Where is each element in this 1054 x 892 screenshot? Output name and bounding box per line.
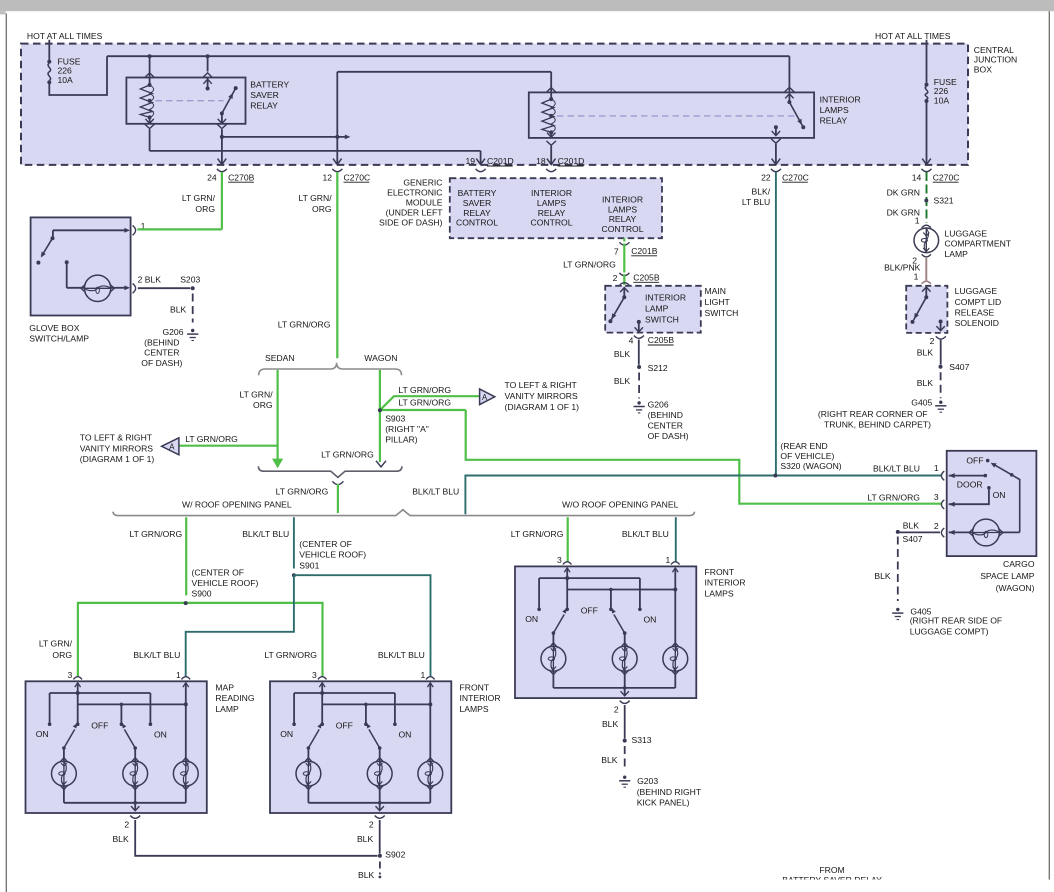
svg-text:ON: ON bbox=[280, 729, 293, 739]
svg-text:BLK/LT BLU: BLK/LT BLU bbox=[412, 487, 459, 497]
svg-text:W/ ROOF OPENING PANEL: W/ ROOF OPENING PANEL bbox=[182, 500, 292, 510]
svg-text:INTERIOR: INTERIOR bbox=[645, 293, 686, 303]
svg-text:RELAY: RELAY bbox=[538, 208, 566, 218]
svg-text:(RIGHT REAR CORNER OF: (RIGHT REAR CORNER OF bbox=[818, 409, 928, 419]
svg-text:3: 3 bbox=[934, 492, 939, 502]
svg-text:LUGGAGE: LUGGAGE bbox=[945, 228, 988, 238]
svg-text:VEHICLE ROOF): VEHICLE ROOF) bbox=[192, 578, 259, 588]
svg-text:S903: S903 bbox=[385, 413, 405, 423]
svg-text:LT GRN/ORG: LT GRN/ORG bbox=[398, 397, 451, 407]
svg-text:INTERIOR: INTERIOR bbox=[705, 578, 746, 588]
svg-text:VANITY MIRRORS: VANITY MIRRORS bbox=[80, 443, 153, 453]
svg-text:BLK: BLK bbox=[614, 349, 631, 359]
svg-text:SEDAN: SEDAN bbox=[265, 353, 295, 363]
svg-text:OFF: OFF bbox=[581, 606, 598, 616]
svg-text:BLK/LT BLU: BLK/LT BLU bbox=[242, 529, 289, 539]
svg-text:HOT AT ALL TIMES: HOT AT ALL TIMES bbox=[27, 31, 103, 41]
svg-text:LT GRN/ORG: LT GRN/ORG bbox=[321, 449, 374, 459]
svg-text:A: A bbox=[169, 443, 175, 452]
svg-text:18: 18 bbox=[536, 156, 546, 166]
svg-text:OF DASH): OF DASH) bbox=[648, 431, 689, 441]
svg-text:BLK: BLK bbox=[358, 870, 375, 880]
svg-text:INTERIOR: INTERIOR bbox=[820, 95, 861, 105]
svg-text:LIGHT: LIGHT bbox=[705, 297, 731, 307]
svg-text:ON: ON bbox=[36, 729, 49, 739]
svg-text:2: 2 bbox=[930, 336, 935, 346]
svg-text:BLK/LT BLU: BLK/LT BLU bbox=[378, 650, 425, 660]
svg-text:SPACE LAMP: SPACE LAMP bbox=[980, 571, 1035, 581]
svg-text:MAP: MAP bbox=[215, 682, 234, 692]
svg-text:LT GRN/: LT GRN/ bbox=[39, 639, 73, 649]
svg-text:(DIAGRAM 1 OF 1): (DIAGRAM 1 OF 1) bbox=[505, 402, 580, 412]
svg-text:OFF: OFF bbox=[336, 721, 353, 731]
svg-text:C201D: C201D bbox=[558, 156, 585, 166]
svg-text:3: 3 bbox=[557, 555, 562, 565]
svg-text:2: 2 bbox=[934, 521, 939, 531]
svg-text:1: 1 bbox=[934, 463, 939, 473]
svg-text:C205B: C205B bbox=[633, 273, 660, 283]
svg-text:3: 3 bbox=[68, 670, 73, 680]
svg-text:S407: S407 bbox=[949, 362, 969, 372]
svg-text:C205B: C205B bbox=[648, 335, 675, 345]
svg-text:LT GRN/ORG: LT GRN/ORG bbox=[511, 529, 564, 539]
svg-text:LT GRN/ORG: LT GRN/ORG bbox=[185, 434, 238, 444]
svg-text:MAIN: MAIN bbox=[705, 286, 726, 296]
svg-text:COMPARTMENT: COMPARTMENT bbox=[945, 239, 1012, 249]
svg-text:CARGO: CARGO bbox=[1003, 559, 1035, 569]
svg-text:LUGGAGE: LUGGAGE bbox=[955, 286, 998, 296]
svg-text:BLK: BLK bbox=[601, 755, 618, 765]
svg-text:4: 4 bbox=[629, 336, 634, 346]
svg-text:2 BLK: 2 BLK bbox=[138, 275, 162, 285]
svg-text:LUGGAGE COMPT): LUGGAGE COMPT) bbox=[910, 626, 989, 636]
svg-text:2: 2 bbox=[614, 704, 619, 714]
svg-text:BLK: BLK bbox=[614, 376, 631, 386]
svg-text:1: 1 bbox=[915, 216, 920, 226]
svg-text:LT GRN/ORG: LT GRN/ORG bbox=[398, 385, 451, 395]
svg-text:(WAGON): (WAGON) bbox=[996, 583, 1035, 593]
svg-text:RELAY: RELAY bbox=[250, 101, 278, 111]
svg-text:ORG: ORG bbox=[195, 204, 215, 214]
svg-text:CENTER: CENTER bbox=[144, 348, 179, 358]
svg-text:SIDE OF DASH): SIDE OF DASH) bbox=[379, 217, 443, 227]
svg-text:CENTER: CENTER bbox=[648, 421, 683, 431]
svg-text:BLK/LT BLU: BLK/LT BLU bbox=[133, 650, 180, 660]
svg-text:1: 1 bbox=[421, 670, 426, 680]
svg-text:BLK: BLK bbox=[917, 378, 934, 388]
svg-text:(DIAGRAM 1 OF 1): (DIAGRAM 1 OF 1) bbox=[80, 454, 155, 464]
svg-text:COMPT LID: COMPT LID bbox=[955, 297, 1002, 307]
svg-text:ON: ON bbox=[154, 730, 167, 740]
svg-text:LT GRN/: LT GRN/ bbox=[298, 193, 332, 203]
svg-text:A: A bbox=[482, 393, 488, 402]
svg-text:W/O ROOF OPENING PANEL: W/O ROOF OPENING PANEL bbox=[562, 500, 679, 510]
svg-text:BATTERY: BATTERY bbox=[458, 188, 497, 198]
svg-text:S321: S321 bbox=[934, 196, 954, 206]
svg-text:OFF: OFF bbox=[966, 455, 983, 465]
svg-text:C270B: C270B bbox=[228, 172, 255, 182]
svg-text:FRONT: FRONT bbox=[460, 682, 490, 692]
svg-text:INTERIOR: INTERIOR bbox=[602, 195, 643, 205]
svg-text:LT GRN/: LT GRN/ bbox=[182, 193, 216, 203]
svg-text:G203: G203 bbox=[637, 776, 658, 786]
svg-text:BLK: BLK bbox=[874, 571, 891, 581]
svg-text:G405: G405 bbox=[911, 397, 932, 407]
svg-text:LT GRN/ORG: LT GRN/ORG bbox=[867, 493, 920, 503]
svg-text:1: 1 bbox=[176, 670, 181, 680]
svg-text:(RIGHT "A": (RIGHT "A" bbox=[385, 424, 429, 434]
svg-text:ORG: ORG bbox=[312, 204, 332, 214]
svg-text:MODULE: MODULE bbox=[406, 197, 443, 207]
svg-text:BLK/LT BLU: BLK/LT BLU bbox=[873, 464, 920, 474]
svg-text:SWITCH: SWITCH bbox=[645, 315, 679, 325]
svg-text:CONTROL: CONTROL bbox=[601, 224, 643, 234]
svg-text:BLK: BLK bbox=[112, 834, 129, 844]
svg-text:ON: ON bbox=[525, 614, 538, 624]
svg-text:LT GRN/: LT GRN/ bbox=[239, 390, 273, 400]
svg-text:JUNCTION: JUNCTION bbox=[974, 55, 1017, 65]
svg-text:S901: S901 bbox=[299, 560, 319, 570]
svg-text:2: 2 bbox=[613, 273, 618, 283]
svg-text:2: 2 bbox=[124, 819, 129, 829]
svg-text:HOT AT ALL TIMES: HOT AT ALL TIMES bbox=[875, 31, 951, 41]
svg-text:LT GRN/ORG: LT GRN/ORG bbox=[130, 529, 183, 539]
svg-text:LAMP: LAMP bbox=[945, 249, 969, 259]
svg-text:ON: ON bbox=[993, 490, 1006, 500]
svg-text:TO LEFT & RIGHT: TO LEFT & RIGHT bbox=[80, 433, 153, 443]
svg-text:LAMPS: LAMPS bbox=[820, 105, 849, 115]
svg-text:LAMPS: LAMPS bbox=[608, 204, 637, 214]
svg-text:S320 (WAGON): S320 (WAGON) bbox=[780, 461, 841, 471]
svg-text:RELAY: RELAY bbox=[820, 116, 848, 126]
svg-text:G206: G206 bbox=[648, 400, 669, 410]
svg-text:BATTERY: BATTERY bbox=[250, 80, 289, 90]
svg-text:OF VEHICLE): OF VEHICLE) bbox=[780, 451, 834, 461]
svg-text:READING: READING bbox=[215, 693, 254, 703]
svg-text:OFF: OFF bbox=[91, 721, 108, 731]
svg-text:PILLAR): PILLAR) bbox=[385, 435, 418, 445]
svg-text:BLK: BLK bbox=[170, 305, 187, 315]
svg-text:(BEHIND: (BEHIND bbox=[144, 337, 179, 347]
svg-text:S900: S900 bbox=[192, 588, 212, 598]
svg-text:(BEHIND: (BEHIND bbox=[648, 410, 683, 420]
svg-text:WAGON: WAGON bbox=[364, 353, 397, 363]
svg-text:C201D: C201D bbox=[487, 156, 514, 166]
svg-text:7: 7 bbox=[614, 246, 619, 256]
svg-text:BOX: BOX bbox=[974, 65, 992, 75]
svg-text:BLK: BLK bbox=[903, 521, 920, 531]
svg-text:(CENTER OF: (CENTER OF bbox=[299, 539, 352, 549]
svg-text:LAMPS: LAMPS bbox=[705, 589, 734, 599]
svg-text:12: 12 bbox=[323, 172, 333, 182]
svg-text:INTERIOR: INTERIOR bbox=[531, 188, 572, 198]
svg-text:RELEASE: RELEASE bbox=[955, 308, 995, 318]
svg-text:TRUNK, BEHIND CARPET): TRUNK, BEHIND CARPET) bbox=[824, 420, 931, 430]
svg-text:(RIGHT REAR SIDE OF: (RIGHT REAR SIDE OF bbox=[910, 616, 1002, 626]
svg-text:TO LEFT & RIGHT: TO LEFT & RIGHT bbox=[505, 380, 578, 390]
svg-text:LAMP: LAMP bbox=[215, 704, 239, 714]
svg-text:C270C: C270C bbox=[782, 172, 809, 182]
svg-text:FROM: FROM bbox=[819, 865, 844, 875]
svg-text:22: 22 bbox=[761, 172, 771, 182]
svg-text:LT GRN/ORG: LT GRN/ORG bbox=[264, 650, 317, 660]
svg-text:G206: G206 bbox=[162, 327, 183, 337]
svg-text:1: 1 bbox=[914, 271, 919, 281]
svg-text:SAVER: SAVER bbox=[463, 198, 492, 208]
svg-text:RELAY: RELAY bbox=[609, 214, 637, 224]
svg-text:GENERIC: GENERIC bbox=[403, 177, 442, 187]
svg-text:BLK/LT BLU: BLK/LT BLU bbox=[622, 529, 669, 539]
svg-text:SWITCH/LAMP: SWITCH/LAMP bbox=[29, 334, 89, 344]
svg-text:ORG: ORG bbox=[52, 650, 72, 660]
svg-text:LAMPS: LAMPS bbox=[537, 198, 566, 208]
svg-text:FRONT: FRONT bbox=[705, 567, 735, 577]
svg-text:CENTRAL: CENTRAL bbox=[974, 45, 1014, 55]
svg-text:C270C: C270C bbox=[344, 172, 371, 182]
svg-text:INTERIOR: INTERIOR bbox=[460, 693, 501, 703]
svg-text:RELAY: RELAY bbox=[463, 208, 491, 218]
svg-text:LAMP: LAMP bbox=[645, 304, 669, 314]
svg-text:S902: S902 bbox=[385, 849, 405, 859]
svg-text:14: 14 bbox=[912, 172, 922, 182]
svg-text:KICK PANEL): KICK PANEL) bbox=[637, 797, 690, 807]
svg-text:24: 24 bbox=[207, 172, 217, 182]
svg-text:CONTROL: CONTROL bbox=[530, 218, 572, 228]
svg-text:LT GRN/ORG: LT GRN/ORG bbox=[278, 319, 331, 329]
svg-text:SOLENOID: SOLENOID bbox=[955, 318, 999, 328]
svg-text:3: 3 bbox=[312, 670, 317, 680]
svg-text:BLK: BLK bbox=[357, 834, 374, 844]
svg-text:(BEHIND RIGHT: (BEHIND RIGHT bbox=[637, 787, 702, 797]
svg-text:OF DASH): OF DASH) bbox=[141, 358, 182, 368]
svg-text:BLK: BLK bbox=[917, 348, 934, 358]
svg-text:ON: ON bbox=[644, 615, 657, 625]
svg-text:2: 2 bbox=[369, 819, 374, 829]
svg-text:(CENTER OF: (CENTER OF bbox=[192, 568, 245, 578]
svg-text:GLOVE BOX: GLOVE BOX bbox=[29, 323, 79, 333]
svg-text:DK GRN: DK GRN bbox=[887, 187, 920, 197]
svg-text:LT GRN/ORG: LT GRN/ORG bbox=[563, 260, 616, 270]
svg-text:C270C: C270C bbox=[933, 172, 960, 182]
svg-text:19: 19 bbox=[466, 156, 476, 166]
svg-text:S313: S313 bbox=[632, 735, 652, 745]
svg-text:10A: 10A bbox=[58, 75, 74, 85]
svg-text:S203: S203 bbox=[180, 275, 200, 285]
svg-text:CONTROL: CONTROL bbox=[456, 218, 498, 228]
svg-text:BLK: BLK bbox=[602, 719, 619, 729]
svg-text:LAMPS: LAMPS bbox=[460, 704, 489, 714]
svg-text:(REAR END: (REAR END bbox=[780, 441, 827, 451]
svg-text:VEHICLE ROOF): VEHICLE ROOF) bbox=[299, 550, 366, 560]
svg-text:LT BLU: LT BLU bbox=[742, 197, 770, 207]
svg-text:VANITY MIRRORS: VANITY MIRRORS bbox=[505, 391, 578, 401]
svg-text:10A: 10A bbox=[934, 96, 950, 106]
svg-text:ON: ON bbox=[399, 730, 412, 740]
svg-text:C201B: C201B bbox=[631, 246, 658, 256]
svg-text:LT GRN/ORG: LT GRN/ORG bbox=[276, 487, 329, 497]
svg-text:(UNDER LEFT: (UNDER LEFT bbox=[386, 207, 444, 217]
svg-text:1: 1 bbox=[666, 555, 671, 565]
svg-text:ORG: ORG bbox=[253, 400, 273, 410]
svg-text:ELECTRONIC: ELECTRONIC bbox=[387, 187, 442, 197]
svg-text:DOOR: DOOR bbox=[957, 479, 983, 489]
svg-text:SWITCH: SWITCH bbox=[705, 308, 739, 318]
svg-text:S407: S407 bbox=[903, 534, 923, 544]
svg-text:SAVER: SAVER bbox=[250, 90, 278, 100]
svg-text:BLK/: BLK/ bbox=[752, 187, 771, 197]
svg-text:S212: S212 bbox=[648, 363, 668, 373]
